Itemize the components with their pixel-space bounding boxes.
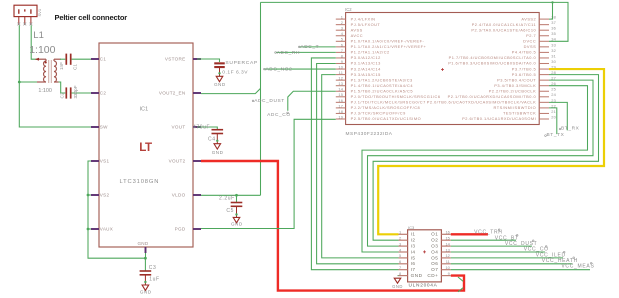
svg-text:330pF: 330pF <box>73 85 78 98</box>
wire VOUT2_EN to vertical <box>201 88 261 93</box>
wire VS2 stub <box>88 194 91 196</box>
ground IC3 <box>394 278 401 283</box>
svg-text:BT_RX: BT_RX <box>561 126 580 132</box>
wire C4 to ground dot <box>216 133 218 143</box>
svg-text:C3: C3 <box>149 265 157 271</box>
svg-text:16: 16 <box>338 98 343 103</box>
svg-text:I2: I2 <box>411 238 416 243</box>
svg-text:P2.1/TB0.0/UCA0RXD/UCA0SOMI/TB: P2.1/TB0.0/UCA0RXD/UCA0SOMI/TB0.0 <box>448 94 537 99</box>
wire BT_TX <box>549 108 557 134</box>
svg-text:PJ.1/TDI/TCLK/MCLK/SRSCG0/C7: PJ.1/TDI/TCLK/MCLK/SRSCG0/C7 <box>351 100 426 105</box>
svg-text:15: 15 <box>445 236 449 241</box>
svg-text:P1.4/TB0.1/UCA0STE/A4/C4: P1.4/TB0.1/UCA0STE/A4/C4 <box>351 83 414 88</box>
svg-text:P3.1/A13/C13: P3.1/A13/C13 <box>351 61 381 66</box>
svg-text:8: 8 <box>341 53 343 58</box>
transformer phase dot <box>45 61 47 63</box>
capacitor C1 <box>65 54 67 65</box>
svg-text:I6: I6 <box>411 261 416 266</box>
wire connector pin3 to transformer primary top <box>31 25 38 59</box>
svg-text:GND: GND <box>214 82 226 87</box>
svg-text:13: 13 <box>445 247 449 252</box>
svg-text:8: 8 <box>399 271 401 276</box>
svg-text:VLDO: VLDO <box>172 193 186 198</box>
svg-text:BT_TX: BT_TX <box>547 132 565 138</box>
svg-text:I1: I1 <box>411 232 416 237</box>
wire C1 to IC1 pin C1 <box>72 58 91 60</box>
svg-text:P2.6/TB0.1/UCA1RXD/UCA0SOMI: P2.6/TB0.1/UCA1RXD/UCA0SOMI <box>462 116 536 121</box>
svg-text:GND: GND <box>212 150 224 155</box>
svg-text:VS2: VS2 <box>100 193 110 198</box>
microcontroller IC2 MSP430F2232IDA <box>336 7 557 137</box>
capacitor C4 <box>212 129 224 131</box>
svg-text:MSP430F2232IDA: MSP430F2232IDA <box>346 131 393 137</box>
junction C5 gnd <box>235 213 237 215</box>
svg-text:PJ.2/TMS/ACLK/SROSCOFF/C8: PJ.2/TMS/ACLK/SROSCOFF/C8 <box>351 105 421 110</box>
svg-text:19: 19 <box>338 114 343 119</box>
svg-text:11: 11 <box>339 70 344 75</box>
svg-text:18: 18 <box>338 109 343 114</box>
svg-text:DVCC: DVCC <box>523 39 536 44</box>
svg-text:TEST/SBWTCK: TEST/SBWTCK <box>503 111 536 116</box>
connector SV1 <box>14 5 37 25</box>
op-amp IC1 LTC3108GN <box>91 43 201 253</box>
svg-text:PJ.3/TCK/SRCPUOFF/C9: PJ.3/TCK/SRCPUOFF/C9 <box>351 111 406 116</box>
svg-text:I4: I4 <box>411 249 416 254</box>
svg-text:P2.7: P2.7 <box>526 33 536 38</box>
svg-text:11: 11 <box>446 259 450 264</box>
wire VCC_MEAS <box>451 269 590 271</box>
svg-text:I3: I3 <box>411 244 416 249</box>
svg-text:1: 1 <box>399 230 401 235</box>
wire top rail to AVSS2 loop <box>261 1 553 3</box>
wire PGD to IC2 pin19 <box>201 119 336 228</box>
wire VS1 VS2 VAUX tie <box>88 161 145 258</box>
wire transformer to C2 <box>59 82 66 93</box>
wire IC3 GND pin <box>398 275 399 277</box>
svg-text:20: 20 <box>551 114 556 119</box>
svg-text:GND: GND <box>231 222 243 227</box>
wire IC2 pin26 to IC3 I4 <box>362 86 588 252</box>
svg-text:10: 10 <box>338 64 343 69</box>
svg-text:P2.5/TB0.0/UCA1TXD/UC1SIMO: P2.5/TB0.0/UCA1TXD/UC1SIMO <box>351 116 422 121</box>
wire VOUT to C4 <box>197 127 217 130</box>
svg-text:ADC_NO2: ADC_NO2 <box>266 67 293 73</box>
svg-text:GND: GND <box>411 273 423 278</box>
svg-text:5: 5 <box>399 253 401 258</box>
wire junction to C3 <box>144 258 146 271</box>
svg-text:6: 6 <box>399 259 401 264</box>
svg-text:ADC_DUST: ADC_DUST <box>254 98 285 104</box>
transformer polarity arrow <box>35 58 39 61</box>
svg-text:P4.4/TB0.5: P4.4/TB0.5 <box>512 50 536 55</box>
svg-text:LTC3108GN: LTC3108GN <box>120 179 160 185</box>
svg-text:AVSS2: AVSS2 <box>521 16 536 21</box>
svg-text:O2: O2 <box>431 238 438 243</box>
svg-text:VCC_MEAS: VCC_MEAS <box>561 263 594 269</box>
capacitor C3 <box>140 270 152 272</box>
svg-text:PJ.0/TDO/TB0OUTH/SMCLK/SRSCG1/: PJ.0/TDO/TB0OUTH/SMCLK/SRSCG1/C6 <box>351 94 441 99</box>
svg-text:O1: O1 <box>431 232 438 237</box>
IC3 origin cross <box>423 250 426 253</box>
svg-text:13: 13 <box>338 81 343 86</box>
svg-text:P3.7/TB0.5: P3.7/TB0.5 <box>512 66 536 71</box>
svg-text:30: 30 <box>551 59 556 64</box>
svg-text:O6: O6 <box>431 261 438 266</box>
svg-text:CD+: CD+ <box>427 273 438 278</box>
svg-text:P2.4/TA0.0/UCA1CLK/A7/C11: P2.4/TA0.0/UCA1CLK/A7/C11 <box>472 22 536 27</box>
wire VCC_HEATH <box>451 263 573 265</box>
svg-text:3: 3 <box>399 241 401 246</box>
wire VCC_CO <box>451 251 545 253</box>
svg-text:5: 5 <box>341 37 343 42</box>
svg-text:32: 32 <box>551 48 556 53</box>
wire AVSS2 riser <box>549 2 553 19</box>
wire VCC_TRH red <box>451 233 488 235</box>
svg-text:VOUT: VOUT <box>172 125 186 130</box>
wire junction to transformer primary bottom <box>19 81 38 83</box>
wire vertical top-rail to VLDO <box>260 2 262 195</box>
svg-text:DVSS: DVSS <box>524 44 537 49</box>
svg-text:GND: GND <box>140 290 152 295</box>
svg-text:1nF: 1nF <box>59 62 64 70</box>
capacitor SUPERCAP <box>214 62 225 64</box>
svg-text:P2.0/TB0.6/UCA0TXD/UCA0SIMO/TB: P2.0/TB0.6/UCA0TXD/UCA0SIMO/TB0CLK/VACLK <box>427 100 536 105</box>
junction primary-bottom <box>18 81 21 84</box>
svg-text:P3.4/TB0.3/SMCLK: P3.4/TB0.3/SMCLK <box>494 83 536 88</box>
wire VSTORE to supercap <box>197 59 220 62</box>
wire connector pin1 to junction and SW <box>19 25 91 127</box>
svg-text:P2.3/TA0.0/UCA1STE/A6/C10: P2.3/TA0.0/UCA1STE/A6/C10 <box>471 27 536 32</box>
wire DVCC riser <box>549 2 568 41</box>
svg-text:6: 6 <box>341 42 343 47</box>
wire C5 to ground dot <box>236 206 238 217</box>
svg-text:P3.0/A12/C12: P3.0/A12/C12 <box>351 55 381 60</box>
svg-text:P2.2/TB0.2/UCB0CLK: P2.2/TB0.2/UCB0CLK <box>489 88 537 93</box>
wire VLDO to junction <box>201 194 261 196</box>
svg-text:VOUT2_EN: VOUT2_EN <box>159 91 186 96</box>
svg-text:IC3: IC3 <box>408 225 415 230</box>
svg-text:C4: C4 <box>208 136 216 142</box>
svg-text:C2: C2 <box>59 92 64 98</box>
wire VCC_BT <box>451 239 516 241</box>
junction VAUX <box>87 228 90 231</box>
svg-text:0.1F 6.3V: 0.1F 6.3V <box>222 70 248 76</box>
svg-text:PGD: PGD <box>175 227 186 232</box>
svg-text:2: 2 <box>399 236 401 241</box>
junction top rail <box>551 1 553 3</box>
svg-text:1:100: 1:100 <box>29 44 55 56</box>
wire green chamfer upper <box>458 277 463 281</box>
capacitor C2 <box>65 87 67 98</box>
wire junction to C5 <box>236 195 238 202</box>
svg-text:470uF: 470uF <box>193 124 210 130</box>
svg-text:PJ.4/LFXIN: PJ.4/LFXIN <box>351 16 376 21</box>
svg-text:GND: GND <box>137 241 148 246</box>
svg-text:I7: I7 <box>411 267 416 272</box>
svg-text:C5: C5 <box>226 208 234 214</box>
svg-text:1: 1 <box>341 15 343 20</box>
IC2 origin cross <box>441 68 444 71</box>
svg-text:1uF: 1uF <box>149 276 159 282</box>
svg-text:GND: GND <box>392 284 403 289</box>
svg-text:P1.7/TB0.4/UCB0SOMI/UCB0SCL/TA: P1.7/TB0.4/UCB0SOMI/UCB0SCL/TA0.0 <box>449 55 537 60</box>
junction supercap gnd <box>218 72 220 74</box>
svg-text:P3.5/TB0.4/COUT: P3.5/TB0.4/COUT <box>497 77 536 82</box>
junction C5 tap <box>235 194 238 197</box>
svg-text:21: 21 <box>551 109 556 114</box>
svg-text:LT: LT <box>139 141 152 154</box>
svg-text:37: 37 <box>551 20 556 25</box>
ground C5 <box>233 217 240 222</box>
svg-text:33: 33 <box>551 42 556 47</box>
wire C2 to IC1 pin C2 <box>72 92 91 94</box>
net label ADC_T wire <box>299 46 335 48</box>
junction VS2 <box>87 194 90 197</box>
wire BT_RX <box>549 102 567 130</box>
svg-text:PJ.5/LFXOUT: PJ.5/LFXOUT <box>351 22 381 27</box>
svg-text:P3.2/A14/C14: P3.2/A14/C14 <box>351 66 382 71</box>
svg-text:C1: C1 <box>100 57 107 62</box>
wire VCC_ILED <box>451 257 563 259</box>
svg-text:1:100: 1:100 <box>38 88 52 94</box>
svg-text:O5: O5 <box>431 255 438 260</box>
svg-text:VSTORE: VSTORE <box>165 57 186 62</box>
svg-text:IC2: IC2 <box>345 7 352 12</box>
junction C4 gnd <box>216 140 218 142</box>
svg-text:RTS/NMI/SBWTDIO: RTS/NMI/SBWTDIO <box>494 105 537 110</box>
svg-text:2.2uF: 2.2uF <box>219 196 235 202</box>
svg-text:O3: O3 <box>431 244 438 249</box>
transistor-array IC3 ULN2004A <box>399 225 451 288</box>
svg-text:25: 25 <box>551 87 556 92</box>
svg-text:ULN2004A: ULN2004A <box>409 282 438 288</box>
svg-text:Peltier cell connector: Peltier cell connector <box>55 13 128 22</box>
svg-text:2: 2 <box>341 20 343 25</box>
svg-text:36: 36 <box>551 26 556 31</box>
svg-text:3: 3 <box>341 26 343 31</box>
svg-text:AVCC: AVCC <box>351 33 364 38</box>
svg-text:I5: I5 <box>411 255 416 260</box>
svg-text:12: 12 <box>338 76 343 81</box>
svg-text:L1: L1 <box>33 30 44 41</box>
junction C3 tap <box>144 257 147 260</box>
svg-text:SUPERCAP: SUPERCAP <box>225 60 258 66</box>
wire IC2 pin8 to IC3 I7 <box>311 58 398 270</box>
net label ADC_RH wire <box>276 51 336 53</box>
svg-text:12: 12 <box>445 253 449 258</box>
wire supercap to ground dot <box>219 68 221 77</box>
svg-text:16: 16 <box>445 230 449 235</box>
transformer L1 <box>37 59 61 83</box>
svg-text:IC1: IC1 <box>140 107 149 113</box>
svg-text:P1.1/TA0.2/A1/C1/VREF+/VEREF+: P1.1/TA0.2/A1/C1/VREF+/VEREF+ <box>351 44 427 49</box>
svg-text:ADC_RH: ADC_RH <box>277 50 300 56</box>
wire yellow IC2 pin29 to IC3 I1 <box>378 69 604 234</box>
svg-text:P1.2/TA1.1/A2/C2: P1.2/TA1.1/A2/C2 <box>351 50 390 55</box>
net label ADC_CO wire <box>288 91 336 111</box>
svg-text:AVSS: AVSS <box>351 27 363 32</box>
svg-text:35: 35 <box>551 31 556 36</box>
svg-text:15: 15 <box>338 92 343 97</box>
svg-text:P1.3/TA1.2/UCB0STE/A3/C3: P1.3/TA1.2/UCB0STE/A3/C3 <box>351 77 413 82</box>
wire IC1 GND down <box>145 253 147 258</box>
svg-text:VS1: VS1 <box>100 159 110 164</box>
wire IC2 pin9 to IC3 I6 <box>317 64 399 264</box>
svg-text:17: 17 <box>338 103 343 108</box>
wire VAUX stub <box>88 228 91 230</box>
svg-text:SV1: SV1 <box>37 8 42 16</box>
ground C4 <box>214 144 221 149</box>
svg-text:24: 24 <box>551 92 556 97</box>
ground supercap <box>216 76 223 81</box>
wire VCC_DUST <box>451 245 532 247</box>
junction C3 gnd <box>144 281 146 283</box>
wire VOUT2 thick red net <box>201 161 464 291</box>
svg-text:P3.6/TB0.5: P3.6/TB0.5 <box>512 72 536 77</box>
svg-text:31: 31 <box>551 53 556 58</box>
svg-text:O4: O4 <box>431 249 438 254</box>
svg-text:O7: O7 <box>431 267 438 272</box>
svg-text:C2: C2 <box>100 91 107 96</box>
svg-text:VOUT2: VOUT2 <box>169 159 186 164</box>
wire transformer to C1 <box>60 58 65 60</box>
svg-text:9: 9 <box>448 271 450 276</box>
wire green chamfer lower <box>458 288 463 292</box>
wire IC2 pin28 to IC3 I2 <box>373 75 598 241</box>
svg-text:P1.5/TB0.2/UCA0CLK/A5/C5: P1.5/TB0.2/UCA0CLK/A5/C5 <box>351 88 413 93</box>
net label ADC_NO2 wire <box>265 68 336 70</box>
svg-text:7: 7 <box>341 48 343 53</box>
wire C3 to ground dot <box>144 275 146 285</box>
svg-text:9: 9 <box>341 59 343 64</box>
svg-text:14: 14 <box>338 87 343 92</box>
svg-text:C1: C1 <box>72 64 77 70</box>
svg-text:7: 7 <box>399 265 401 270</box>
svg-text:P1.6/TB0.3/UCB0SIMO/UCB0SDA/TA: P1.6/TB0.3/UCB0SIMO/UCB0SDA/TA0.0 <box>448 61 536 66</box>
wire IC2 pin11 to IC3 I5 <box>322 75 399 258</box>
svg-text:VAUX: VAUX <box>100 227 113 232</box>
wire IC2 pin27 to IC3 I3 <box>368 80 594 246</box>
svg-text:ADC_CO: ADC_CO <box>267 112 291 118</box>
svg-text:P3.3/A15/C15: P3.3/A15/C15 <box>351 72 381 77</box>
ground C3 <box>142 285 149 290</box>
svg-text:ADC_T: ADC_T <box>300 44 319 50</box>
svg-text:P1.0/TA0.1/A0/C0/VREF-/VEREF-: P1.0/TA0.1/A0/C0/VREF-/VEREF- <box>351 39 425 44</box>
svg-text:SW: SW <box>100 125 108 130</box>
capacitor C5 <box>231 202 243 204</box>
